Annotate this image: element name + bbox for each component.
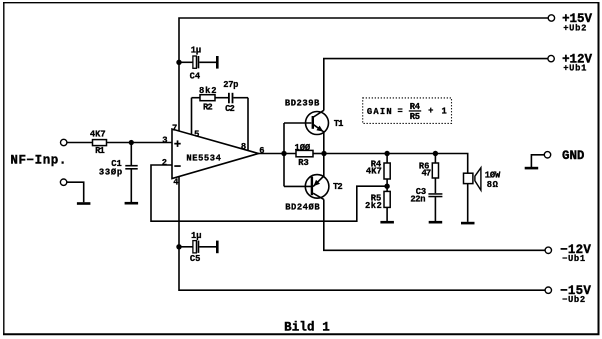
svg-text:6: 6 [259, 146, 264, 156]
svg-text:T1: T1 [334, 119, 344, 129]
wire: GND terminal lead [531, 155, 544, 167]
terminal: +12V [548, 55, 554, 61]
svg-text:R2: R2 [203, 102, 213, 112]
opamp +/- marks [174, 140, 180, 167]
node: R1/C1 junction [129, 140, 134, 145]
svg-text:1: 1 [442, 106, 447, 116]
svg-text:4: 4 [173, 178, 179, 188]
wire: output pin 6 [259, 153, 297, 155]
svg-text:NE5534: NE5534 [186, 153, 221, 163]
wire: R1 to pin 3 [107, 142, 173, 144]
ground: C5 (rotated) [216, 241, 219, 254]
wire: +15V rail [179, 18, 548, 131]
wire: input to R1 [67, 142, 93, 144]
svg-text:47: 47 [422, 169, 432, 179]
svg-text:8: 8 [241, 142, 246, 152]
ground: C4 (rotated) [216, 56, 219, 69]
svg-text:C2: C2 [225, 104, 235, 114]
node: emitter junction [321, 151, 326, 156]
wire: C3 to ground [434, 197, 436, 221]
ground: C3 [429, 221, 443, 224]
svg-text:8Ω: 8Ω [487, 180, 499, 190]
wire: input2 to ground [67, 182, 84, 202]
wire: base bus vertical [283, 123, 285, 186]
svg-text:BD239B: BD239B [285, 99, 320, 109]
svg-text:=: = [398, 107, 403, 117]
wire: T1 base [284, 122, 311, 124]
ground: speaker [461, 222, 475, 225]
resistor R5 [384, 191, 390, 207]
wire: C5 branch [179, 246, 193, 248]
svg-text:3: 3 [162, 135, 167, 145]
svg-text:2k2: 2k2 [365, 201, 382, 211]
wire: C4 branch [179, 61, 193, 63]
svg-text:27p: 27p [223, 80, 238, 90]
terminal: -15V [545, 287, 551, 293]
capacitor C3 [428, 193, 442, 197]
resistor R4 [384, 163, 390, 179]
ground: input jack [77, 202, 91, 205]
terminal: +15V [548, 15, 554, 21]
ground: R5 [380, 221, 394, 224]
wire: R5 to ground [386, 207, 388, 221]
svg-text:5: 5 [194, 130, 199, 140]
wire: pin 5 up [191, 98, 193, 135]
svg-text:+Ub2: +Ub2 [563, 23, 586, 33]
wire: R6 top [434, 154, 436, 164]
node: R4 top junction [384, 151, 389, 156]
svg-text:R3: R3 [298, 158, 309, 168]
svg-text:GAIN: GAIN [367, 107, 392, 117]
capacitor C5 electrolytic [193, 241, 199, 253]
resistor R1 [93, 140, 107, 146]
terminal: NF input gnd [60, 179, 66, 185]
svg-text:4K7: 4K7 [366, 167, 382, 177]
capacitor C1 [125, 165, 137, 170]
svg-text:1ØW: 1ØW [485, 170, 501, 180]
resistor R3 [296, 150, 313, 156]
ground: C1 [125, 202, 139, 205]
node: R6 top junction [433, 151, 438, 156]
svg-text:−Ub2: −Ub2 [562, 295, 585, 305]
terminal: NF input hot [61, 139, 67, 145]
svg-text:BD24ØB: BD24ØB [285, 203, 320, 213]
resistor R6 [432, 163, 438, 178]
wire: R4 top [386, 154, 388, 164]
wire: C1 to ground [130, 170, 132, 203]
svg-text:2: 2 [162, 158, 167, 168]
wire: feedback R2/C2 segs [192, 97, 201, 99]
wire: T1 emitter down [323, 132, 325, 154]
wire: +12V rail to T1 collector [324, 59, 548, 111]
svg-text:7: 7 [172, 123, 177, 133]
node: output/base junction [281, 151, 286, 156]
svg-text:NF−Inp.: NF−Inp. [10, 154, 66, 168]
speaker LS 10W 8ohm [464, 168, 481, 191]
wire: -12V rail from T2 collector [324, 199, 545, 250]
terminal: GND [544, 152, 550, 158]
node: R4/R5 feedback junction [384, 184, 389, 189]
resistor R2 [200, 95, 215, 101]
svg-text:1µ: 1µ [191, 46, 202, 56]
capacitor C4 electrolytic [193, 56, 199, 68]
gain formula box [363, 98, 452, 124]
terminal: -12V [545, 247, 551, 253]
svg-text:−Ub1: −Ub1 [562, 254, 585, 264]
wire: main output line [324, 154, 468, 222]
transistor T2 BD240B [305, 175, 329, 200]
svg-text:R5: R5 [410, 112, 420, 122]
ground: GND terminal [525, 167, 539, 170]
capacitor C2 [228, 93, 233, 104]
node: C4 junction [176, 60, 181, 65]
wire: R4-R5 [386, 179, 388, 191]
svg-text:8k2: 8k2 [199, 86, 217, 96]
wire: pin 2 feedback loop [151, 165, 387, 221]
svg-text:1µ: 1µ [191, 231, 202, 241]
wire: C1 node down [130, 143, 132, 166]
svg-text:4K7: 4K7 [90, 129, 106, 139]
svg-text:+: + [428, 106, 433, 116]
wire: R3 right to emitter node [313, 153, 324, 155]
transistor T1 BD239B [306, 110, 329, 134]
svg-text:+Ub1: +Ub1 [563, 64, 586, 74]
wire: R6-C3 [434, 178, 436, 193]
node: C5 junction [176, 244, 181, 249]
svg-text:R1: R1 [95, 146, 105, 156]
svg-text:1ØØ: 1ØØ [295, 143, 311, 153]
op-amp U1 NE5534 [172, 129, 259, 179]
svg-text:T2: T2 [333, 182, 343, 192]
svg-text:22n: 22n [410, 194, 425, 204]
svg-text:C5: C5 [190, 254, 201, 264]
wire: T2 emitter up [323, 154, 325, 177]
wire: pin 8 down [247, 98, 249, 151]
wire: -15V rail from pin 4 [179, 177, 545, 291]
svg-text:GND: GND [562, 149, 585, 163]
svg-text:Bild 1: Bild 1 [284, 320, 330, 334]
svg-text:C4: C4 [190, 72, 201, 82]
wire: T2 base [284, 185, 311, 187]
svg-text:33Øp: 33Øp [99, 168, 122, 178]
